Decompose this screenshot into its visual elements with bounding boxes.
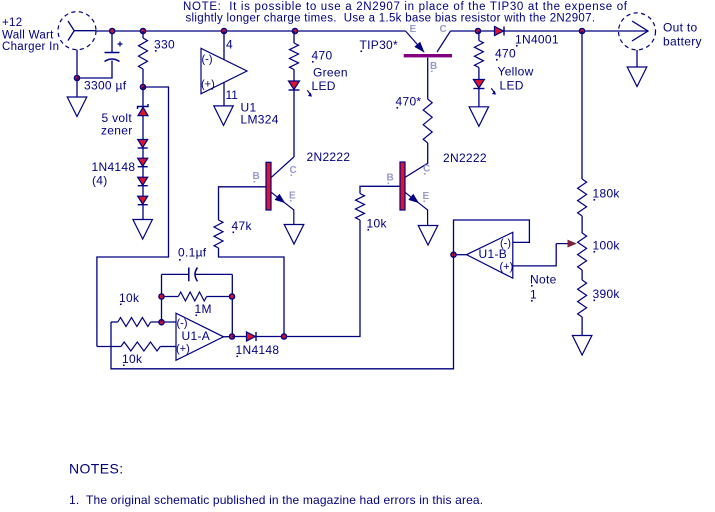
- transistor Q2 2N2222: [400, 162, 428, 226]
- label 1M: [195, 302, 212, 316]
- pin label E Q2: [423, 191, 430, 202]
- wire LED to Q1 collector: [293, 90, 295, 157]
- label TIP30*: [360, 38, 399, 52]
- node node U1-A output: [229, 334, 234, 339]
- svg-text:11: 11: [226, 88, 239, 102]
- svg-text:E: E: [423, 191, 430, 202]
- wire 180k to 100k: [581, 216, 583, 233]
- ground divider: [572, 336, 592, 356]
- ground Q1 emitter: [284, 225, 304, 245]
- svg-text:+12: +12: [2, 17, 22, 29]
- svg-text:1: 1: [530, 288, 537, 302]
- label 2N2222 Q2: [443, 151, 487, 165]
- connector J1 wall-wart input: [58, 12, 96, 50]
- pin label B Q1: [253, 171, 261, 182]
- resistor 390k: [578, 280, 587, 317]
- label 100k: [593, 239, 621, 253]
- wire U1-B feedback: [454, 220, 530, 255]
- node node zener top: [140, 84, 145, 89]
- ground yellow LED: [469, 107, 489, 127]
- node rail node right column: [579, 28, 584, 33]
- node rail node pin4: [221, 28, 226, 33]
- label Out to: [663, 21, 698, 35]
- diode 1N4148 b: [138, 158, 148, 167]
- pin label 11: [226, 88, 239, 102]
- ground U1 pin11: [214, 106, 233, 126]
- wire feedback right leg: [231, 274, 233, 336]
- wire J1 to ground: [76, 50, 78, 78]
- wire U1-B plus input to wiper: [513, 244, 556, 266]
- wire to ground: [142, 205, 144, 219]
- svg-text:0.1µf: 0.1µf: [178, 246, 207, 260]
- label 5 volt: [102, 111, 133, 125]
- svg-text:1M: 1M: [195, 302, 212, 316]
- svg-text:E: E: [410, 24, 417, 35]
- LED green: [289, 81, 300, 90]
- label Charger In: [2, 41, 59, 53]
- label 470 yellow: [495, 47, 516, 61]
- wire: [142, 186, 144, 196]
- label U1: [241, 101, 257, 115]
- svg-text:330: 330: [154, 38, 175, 52]
- svg-text:(-): (-): [202, 54, 213, 66]
- label 3300uf: [84, 79, 127, 93]
- label zener: [101, 124, 133, 138]
- pin label B TIP30: [430, 61, 438, 72]
- capacitor 0.1uf: [162, 268, 233, 282]
- svg-text:(+): (+): [201, 79, 215, 91]
- label 470 green: [312, 49, 333, 63]
- svg-text:Out to: Out to: [663, 21, 698, 35]
- label 2N2222 Q1: [307, 150, 351, 164]
- svg-text:2N2222: 2N2222: [443, 151, 487, 165]
- node rail node 330: [140, 28, 145, 33]
- ground input: [67, 97, 87, 117]
- pin label E TIP30: [410, 24, 417, 35]
- op-amp U1-A: [176, 313, 224, 360]
- svg-text:E: E: [289, 191, 296, 202]
- LED yellow: [473, 80, 484, 89]
- wire U1-B output to bottom rail: [111, 255, 454, 369]
- label LED green: [312, 79, 336, 93]
- connector J2 out to battery: [619, 13, 656, 50]
- label 10k Q2: [367, 217, 388, 231]
- resistor 10k upper (feedback from U1-B): [111, 318, 176, 327]
- wire: [142, 167, 144, 177]
- label 1: [530, 288, 537, 302]
- svg-text:10k: 10k: [119, 291, 140, 305]
- svg-text:470: 470: [495, 47, 516, 61]
- svg-text:U1-B: U1-B: [479, 247, 508, 261]
- wire Q1 base: [219, 187, 267, 220]
- label 47k: [232, 219, 253, 233]
- svg-text:TIP30*: TIP30*: [360, 38, 399, 52]
- note line 2: [186, 12, 596, 24]
- LED green light mark: [307, 90, 312, 96]
- capacitor C1 3300uf: [77, 31, 123, 78]
- resistor 180k: [578, 179, 587, 216]
- label 1N4148 chain: [92, 160, 136, 174]
- resistor 10k Q2 base: [356, 194, 365, 221]
- wire 390k to ground: [581, 317, 583, 336]
- node node feedback right: [229, 294, 234, 299]
- ground zener chain: [133, 220, 153, 240]
- wire 100k to 390k: [581, 270, 583, 280]
- svg-text:1. The original schematic pub: 1. The original schematic published in t…: [69, 493, 483, 507]
- svg-text:3300 µf: 3300 µf: [84, 79, 127, 93]
- svg-text:B: B: [430, 61, 438, 72]
- svg-text:1N4148: 1N4148: [236, 343, 280, 357]
- wire pin 11: [223, 83, 225, 106]
- diode 1N4148 output: [247, 332, 257, 341]
- resistor 470 yellow branch: [474, 31, 483, 80]
- node node U1-A minus: [159, 320, 164, 325]
- svg-text:10k: 10k: [122, 352, 143, 366]
- diode 1N4001: [495, 27, 505, 36]
- ground Q2 emitter: [418, 226, 438, 246]
- svg-text:C: C: [423, 164, 431, 175]
- label Note: [530, 273, 557, 287]
- svg-text:390k: 390k: [593, 287, 621, 301]
- svg-text:B: B: [253, 171, 261, 182]
- svg-text:LED: LED: [500, 79, 524, 93]
- svg-text:B: B: [387, 173, 395, 184]
- label 10k upper: [119, 291, 140, 305]
- label LM324: [241, 113, 279, 127]
- svg-text:4: 4: [226, 38, 233, 52]
- wire Q2 base: [360, 186, 400, 193]
- label Wall Wart: [2, 30, 54, 42]
- diode 1N4148 d: [138, 196, 148, 205]
- label NOTES: [69, 461, 124, 477]
- pin label C Q1: [290, 165, 298, 176]
- label 10k lower: [122, 352, 143, 366]
- label Yellow: [498, 65, 534, 79]
- wire: [142, 149, 144, 159]
- zener diode 5 volt: [138, 87, 149, 116]
- label LED yellow: [500, 79, 524, 93]
- pin label E Q1: [289, 191, 296, 202]
- svg-text:C: C: [440, 24, 448, 35]
- label 1N4001: [515, 33, 559, 47]
- wire Q2 collector: [405, 143, 428, 178]
- node node diode output: [281, 334, 286, 339]
- label battery: [663, 35, 702, 49]
- diode 1N4148 a: [138, 140, 148, 149]
- svg-text:47k: 47k: [232, 219, 253, 233]
- transistor TIP30: [404, 31, 452, 99]
- label +12: [2, 17, 22, 29]
- label Green: [313, 66, 348, 80]
- svg-text:2N2222: 2N2222: [307, 150, 351, 164]
- transistor Q1 2N2222: [266, 157, 294, 225]
- svg-text:(4): (4): [92, 174, 108, 188]
- pin label C Q2: [423, 164, 431, 175]
- op-amp U1-B: [467, 232, 514, 278]
- svg-text:U1-A: U1-A: [182, 329, 211, 343]
- svg-text:LED: LED: [312, 79, 336, 93]
- svg-text:Note: Note: [530, 273, 557, 287]
- wire to ground: [76, 78, 78, 97]
- wire diode to node: [256, 336, 285, 338]
- svg-text:Wall Wart: Wall Wart: [2, 30, 54, 42]
- wire feedback left leg: [161, 274, 163, 322]
- resistor 330: [139, 31, 148, 87]
- wire top rail right: [451, 30, 619, 32]
- resistor 10k lower (reference input): [97, 342, 176, 351]
- pin label 4: [226, 38, 233, 52]
- svg-text:1N4001: 1N4001: [515, 33, 559, 47]
- svg-text:NOTES:: NOTES:: [69, 461, 124, 477]
- svg-text:zener: zener: [101, 124, 133, 138]
- svg-text:1N4148: 1N4148: [92, 160, 136, 174]
- label (4): [92, 174, 108, 188]
- svg-text:(+): (+): [176, 343, 190, 355]
- wire 47k to diode node: [219, 248, 285, 337]
- potentiometer 100k: [556, 233, 586, 270]
- label 180k: [593, 187, 621, 201]
- wire top rail left: [96, 30, 406, 32]
- svg-text:LM324: LM324: [241, 113, 279, 127]
- note line 1: [183, 1, 628, 13]
- label 0.1uf: [178, 246, 207, 260]
- resistor 1M: [162, 292, 233, 301]
- wire 10k to diode node: [284, 220, 360, 337]
- svg-text:(+): (+): [500, 261, 514, 273]
- pin label C TIP30: [440, 24, 448, 35]
- svg-text:10k: 10k: [367, 217, 388, 231]
- wire U1-B output: [454, 254, 467, 256]
- note 1 text: [69, 493, 483, 507]
- node rail node cap: [110, 28, 115, 33]
- svg-text:battery: battery: [663, 35, 702, 49]
- wire U1-A output: [224, 336, 233, 338]
- resistor 470 green branch: [290, 31, 299, 81]
- svg-text:C: C: [290, 165, 298, 176]
- label 390k: [593, 287, 621, 301]
- wire zener to diodes: [142, 116, 144, 140]
- wire rail to 180k: [581, 31, 583, 179]
- LED yellow light mark: [491, 88, 496, 94]
- wire yellow LED to ground: [478, 89, 480, 107]
- svg-text:100k: 100k: [593, 239, 621, 253]
- svg-text:180k: 180k: [593, 187, 621, 201]
- wire pin 4: [223, 31, 225, 60]
- node rail node yellow branch: [475, 28, 480, 33]
- node input ground node: [74, 75, 79, 80]
- wire J2 to ground: [636, 50, 638, 67]
- svg-text:slightly longer charge times.: slightly longer charge times. Use a 1.5k…: [186, 12, 596, 24]
- svg-text:Charger In: Charger In: [2, 41, 59, 53]
- wire to 1N4148: [232, 336, 247, 338]
- svg-text:Green: Green: [313, 66, 348, 80]
- ground output: [627, 67, 647, 87]
- node node U1-B output: [451, 252, 456, 257]
- svg-text:Yellow: Yellow: [498, 65, 534, 79]
- label 1N4148 output: [236, 343, 280, 357]
- pin label B Q2: [387, 173, 395, 184]
- op-amp U1 power section: [201, 48, 247, 94]
- svg-text:(-): (-): [177, 317, 188, 329]
- diode 1N4148 c: [138, 177, 148, 186]
- resistor 47k: [214, 220, 223, 248]
- label 330: [154, 38, 175, 52]
- wire 5V reference: [97, 87, 169, 347]
- svg-text:470*: 470*: [396, 95, 422, 109]
- svg-text:470: 470: [312, 49, 333, 63]
- label 470*: [396, 95, 422, 109]
- node node feedback left: [159, 294, 164, 299]
- resistor 470* base bias: [423, 99, 432, 143]
- node rail node green branch: [292, 28, 297, 33]
